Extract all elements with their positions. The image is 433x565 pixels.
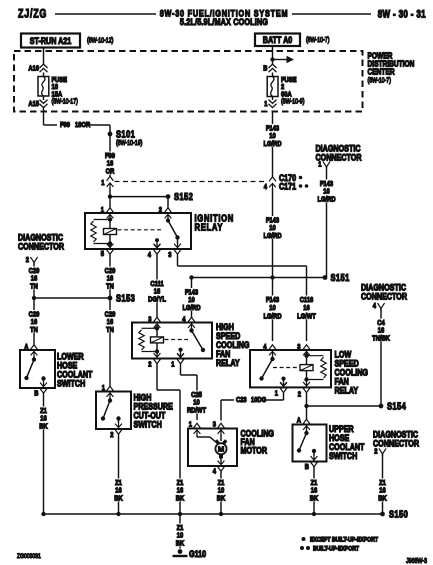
splice S151 xyxy=(323,272,350,283)
low speed relay pin 4 xyxy=(263,343,276,356)
diagnostic connector (left) pin 2 xyxy=(26,256,38,264)
junction at S154 bus xyxy=(304,404,308,408)
legend except built-up-export xyxy=(302,537,379,544)
svg-text:CENTER: CENTER xyxy=(368,67,395,77)
cooling fan motor pin 3 xyxy=(213,421,225,435)
svg-text:(8W-10-19): (8W-10-19) xyxy=(116,139,142,147)
svg-text:(8W-10-12): (8W-10-12) xyxy=(87,37,113,45)
wire F143 to high speed relay pin 4 xyxy=(191,278,193,319)
svg-text:LG/RD: LG/RD xyxy=(263,232,281,240)
cooling fan motor symbol xyxy=(197,435,227,462)
label Z1 16 BK (cutout leg) xyxy=(114,479,123,503)
wire ignition relay pin 5 to S153 xyxy=(109,254,111,298)
svg-text:C171: C171 xyxy=(279,180,296,191)
header title ZJ/ZG xyxy=(18,8,47,20)
label Z1 16 BK (lower hose leg) xyxy=(39,407,48,431)
wire low speed relay pin 2 to S154 bus and upper hose switch xyxy=(306,393,308,419)
label COOLING FAN MOTOR xyxy=(241,427,274,455)
S154 bus wire xyxy=(307,405,382,407)
svg-text:4: 4 xyxy=(263,343,266,351)
ignition relay pin 3 xyxy=(168,243,181,259)
svg-text:10DG: 10DG xyxy=(251,396,266,404)
svg-text:1: 1 xyxy=(101,179,104,187)
svg-text:BK: BK xyxy=(378,495,386,503)
label (8W-10-7) xyxy=(306,36,329,44)
wire connector to junction xyxy=(109,188,111,197)
upper hose coolant switch box xyxy=(293,425,327,462)
header page number 8W - 30 - 31 xyxy=(378,7,426,19)
svg-text:ST-RUN A21: ST-RUN A21 xyxy=(30,35,72,46)
ignition relay box xyxy=(85,213,191,249)
diagnostic connector (top right) pin 1 xyxy=(318,161,330,169)
svg-text:S152: S152 xyxy=(174,191,193,202)
svg-text:SWITCH: SWITCH xyxy=(57,377,85,388)
svg-text:(8W-10-7): (8W-10-7) xyxy=(368,77,391,85)
svg-text:3: 3 xyxy=(148,316,151,324)
svg-text:10: 10 xyxy=(269,305,276,313)
svg-text:18OR: 18OR xyxy=(75,121,90,129)
svg-text:BK: BK xyxy=(310,495,318,503)
wire bus to ground G110 xyxy=(179,514,181,549)
svg-text:4: 4 xyxy=(264,183,267,191)
svg-text:LG/RD: LG/RD xyxy=(317,196,335,204)
F143 bus wire xyxy=(192,277,326,279)
svg-text:TN: TN xyxy=(106,283,114,291)
diagnostic connector (left) xyxy=(18,231,64,251)
wire node down to lower hose coolant switch xyxy=(33,298,35,345)
svg-text:B: B xyxy=(305,463,309,471)
svg-text:ZJ/ZG: ZJ/ZG xyxy=(18,8,47,20)
svg-text:ZG003031: ZG003031 xyxy=(17,553,41,560)
wire ignition relay pin 3 to low speed relay pin 3 xyxy=(178,254,307,341)
high pressure cut-out switch pin 2 xyxy=(110,423,122,439)
splice S150 xyxy=(380,508,408,519)
svg-text:RELAY: RELAY xyxy=(216,357,240,368)
high speed relay pin 3 xyxy=(148,316,160,329)
ignition relay pin 5 xyxy=(101,243,114,258)
wire ignition relay pin 4 to high speed relay pin 3 xyxy=(156,254,158,318)
fuse F2 60A xyxy=(267,77,278,97)
pin A16 xyxy=(28,64,47,73)
legend built-up-export xyxy=(300,546,359,553)
label LOW SPEED COOLING FAN RELAY xyxy=(335,348,368,395)
label FUSE 2 60A (8W-10-9) xyxy=(281,76,304,105)
svg-text:MOTOR: MOTOR xyxy=(241,444,268,455)
label F143 16 LG/RD xyxy=(317,180,337,204)
svg-text:8W - 30 - 31: 8W - 30 - 31 xyxy=(378,7,426,19)
svg-text:2: 2 xyxy=(159,206,162,214)
svg-text:5.2L/5.9L/MAX COOLING: 5.2L/5.9L/MAX COOLING xyxy=(180,16,268,27)
high speed relay pin 1 contact xyxy=(177,348,184,358)
svg-text:1: 1 xyxy=(101,206,104,214)
svg-text:LG/WT: LG/WT xyxy=(297,313,316,321)
high speed relay control dashed line xyxy=(165,339,189,341)
cooling fan motor pin 4 xyxy=(213,460,225,476)
label LOWER HOSE COOLANT SWITCH xyxy=(57,350,93,388)
wire diag pin 2 to S153 node xyxy=(33,263,35,299)
cooling fan motor pin 1 xyxy=(189,421,201,435)
svg-text:M: M xyxy=(218,445,224,454)
upper hose coolant switch contacts xyxy=(297,431,316,457)
footer drawing number ZG003031 xyxy=(17,553,41,560)
svg-text:TN: TN xyxy=(30,326,38,334)
upper hose coolant switch pin B xyxy=(305,456,318,472)
diagnostic connector (bottom right) xyxy=(373,428,419,448)
high speed relay pin 2 xyxy=(148,353,160,369)
wire A16 to fuse 18 xyxy=(43,73,45,77)
label C29 16 TN (lower hose leg) xyxy=(28,310,41,334)
ignition relay switch xyxy=(166,218,180,243)
wire C171 down to F143 bus xyxy=(272,188,274,278)
svg-text:S101: S101 xyxy=(116,128,135,139)
high speed relay pin 1 xyxy=(171,353,184,369)
junction F143 bus mid xyxy=(270,275,274,279)
label Z1 16 BK (upper hose leg) xyxy=(309,479,318,503)
wire diag pin 2 to S150 xyxy=(382,454,384,514)
label HIGH PRESSURE CUT-OUT SWITCH xyxy=(134,391,174,429)
svg-text:BK: BK xyxy=(114,495,122,503)
wire upper hose switch to ground bus xyxy=(313,467,315,514)
low speed relay pin 1 xyxy=(275,381,287,397)
svg-text:LG/RD: LG/RD xyxy=(263,313,281,321)
wire junction down to ignition relay pin 1 xyxy=(109,197,111,208)
svg-text:4: 4 xyxy=(182,316,185,324)
low speed relay coil xyxy=(300,354,326,382)
svg-text:2: 2 xyxy=(110,431,113,439)
in-line connector pin 1 xyxy=(101,176,113,187)
wire F143 to low speed relay pin 4 xyxy=(272,278,274,342)
wire high speed relay pin 1 to fan motor pin 1 xyxy=(181,364,198,420)
splice S101 xyxy=(108,128,143,147)
ignition relay pin 4 xyxy=(148,243,161,259)
svg-text:5: 5 xyxy=(101,250,104,258)
svg-text:TN: TN xyxy=(106,326,114,334)
svg-text:(8W-10-17): (8W-10-17) xyxy=(52,98,78,106)
ground bus junction upper hose xyxy=(312,512,316,516)
splice S154 xyxy=(379,400,407,411)
svg-text:LG/RD: LG/RD xyxy=(263,140,281,148)
label Z1 16 BK (high speed leg) xyxy=(175,479,184,503)
label F143 10 LG/RD (high speed leg) xyxy=(182,288,202,312)
wire S101 down to in-line connector xyxy=(109,134,111,176)
C23 wire to low speed relay pin 1 xyxy=(221,393,284,400)
svg-text:DG/YL: DG/YL xyxy=(148,296,166,304)
svg-text:SWITCH: SWITCH xyxy=(134,418,162,429)
ground bus junction fan motor xyxy=(219,512,223,516)
svg-text:4: 4 xyxy=(373,302,376,310)
svg-text:1: 1 xyxy=(264,100,267,108)
label F99 16 OR xyxy=(104,152,117,176)
ignition relay pin 4 contact xyxy=(154,238,161,248)
svg-text:4: 4 xyxy=(213,468,216,476)
junction at PDC feed xyxy=(270,57,274,61)
ignition relay coil xyxy=(91,217,117,245)
diagnostic connector (top right) xyxy=(316,142,362,162)
label C29 16 TN (cutout leg) xyxy=(104,310,117,334)
svg-text:2: 2 xyxy=(26,256,29,264)
svg-text:2: 2 xyxy=(148,361,151,369)
diagnostic connector (mid right) xyxy=(361,281,407,301)
wire high pressure switch to ground bus xyxy=(118,434,120,514)
svg-text:BATT A0: BATT A0 xyxy=(263,34,293,45)
pin A15 xyxy=(28,96,47,108)
high speed relay pin 4 xyxy=(182,316,195,329)
svg-text:RD/WT: RD/WT xyxy=(187,407,207,415)
svg-text:G110: G110 xyxy=(189,548,206,559)
label UPPER HOSE COOLANT SWITCH xyxy=(329,423,365,461)
svg-text:3: 3 xyxy=(168,251,171,259)
svg-text:BK: BK xyxy=(217,495,225,503)
pin 1 of fuse 2 xyxy=(264,97,276,109)
svg-text:RELAY: RELAY xyxy=(335,384,359,395)
label C116 16 LG/WT xyxy=(297,296,317,321)
upper hose coolant switch pin A xyxy=(297,417,310,431)
ignition relay pin 2 xyxy=(159,206,172,219)
ground bus junction lower hose xyxy=(41,512,45,516)
ignition relay pin 1 xyxy=(101,206,114,219)
junction F143 bus left xyxy=(189,275,193,279)
wire high speed relay pin 2 to ground bus xyxy=(157,364,180,514)
label F143 10 LG/RD (below C171) xyxy=(263,216,283,240)
svg-text:LG/RD: LG/RD xyxy=(182,304,200,312)
low speed relay pin 1 contact xyxy=(280,377,287,387)
dashed connector line C170/C171 xyxy=(115,181,268,183)
svg-text:1: 1 xyxy=(318,161,321,169)
svg-text:S150: S150 xyxy=(389,508,408,519)
svg-text:BK: BK xyxy=(39,423,47,431)
svg-text:F99: F99 xyxy=(60,121,70,129)
svg-text:CONNECTOR: CONNECTOR xyxy=(18,240,64,251)
svg-text:2: 2 xyxy=(374,448,377,456)
wire junction to S152 xyxy=(110,196,168,198)
wire lower hose switch to ground bus xyxy=(43,393,45,514)
label C29 16 TN (relay leg) xyxy=(104,267,117,291)
high speed relay coil xyxy=(139,326,164,354)
header title 8W-30 FUEL/IGNITION SYSTEM xyxy=(160,7,289,27)
svg-text:BUILT-UP-EXPORT: BUILT-UP-EXPORT xyxy=(313,546,359,553)
svg-text:C116: C116 xyxy=(300,296,314,304)
label C4 16 TN/BK xyxy=(371,319,391,343)
wire diag pin 4 to S154 xyxy=(380,309,382,407)
ground bus junction cutout switch xyxy=(116,512,120,516)
svg-text:S151: S151 xyxy=(331,272,350,283)
splice S153 xyxy=(108,292,136,303)
header rule right xyxy=(292,13,371,15)
wire ST-RUN A21 down into PDC xyxy=(43,48,45,65)
svg-text:RELAY: RELAY xyxy=(195,221,224,232)
PDC feed arrow xyxy=(273,56,295,63)
svg-text:BK: BK xyxy=(176,540,184,548)
svg-text:(8W-10-9): (8W-10-9) xyxy=(281,98,304,106)
svg-text:S154: S154 xyxy=(387,400,406,411)
ground G110 xyxy=(173,548,207,559)
label C170 / C171 xyxy=(279,172,308,192)
svg-text:4: 4 xyxy=(148,251,151,259)
high pressure cut-out switch pin 1 xyxy=(102,384,114,397)
wire fan motor to ground bus xyxy=(220,471,222,514)
wire diag pin 1 to S151 xyxy=(325,167,327,278)
svg-text:16: 16 xyxy=(303,305,310,313)
label C25 10 RD/WT xyxy=(187,391,207,415)
svg-text:TN/BK: TN/BK xyxy=(372,335,390,343)
ground bus wire Z1 xyxy=(44,513,383,515)
svg-text:EXCEPT BUILT-UP-EXPORT: EXCEPT BUILT-UP-EXPORT xyxy=(310,537,378,544)
wire BATT A0 down into PDC xyxy=(272,46,274,65)
svg-text:B: B xyxy=(263,65,267,73)
svg-text:A15: A15 xyxy=(28,100,39,108)
low speed relay switch xyxy=(259,356,274,381)
in-line connector C170/C171 pin 4 xyxy=(264,177,276,191)
junction below connector xyxy=(108,194,112,198)
svg-text:TN: TN xyxy=(30,283,38,291)
wire node to S153 xyxy=(34,297,110,299)
label Z1 10 BK (fan motor leg) xyxy=(216,479,225,503)
power distribution center dashed box xyxy=(14,51,363,112)
ignition relay control dashed line xyxy=(118,229,164,231)
svg-text:S153: S153 xyxy=(116,292,135,303)
ground bus junction high speed relay xyxy=(178,512,182,516)
svg-text:F143: F143 xyxy=(266,296,279,304)
label HIGH SPEED COOLING FAN RELAY xyxy=(216,321,249,368)
diagnostic connector (bottom right) pin 2 xyxy=(374,448,386,456)
footer code J968W-3 xyxy=(406,557,427,565)
label C23 10DG xyxy=(234,395,266,405)
label F143 10 LG/RD (low speed leg) xyxy=(263,296,283,321)
low speed relay pin 2 xyxy=(298,381,310,398)
lower hose coolant switch contacts xyxy=(24,356,45,382)
svg-text:2: 2 xyxy=(298,391,301,399)
diagnostic connector (mid right) pin 4 xyxy=(373,302,385,310)
label C29 16 TN (diag leg) xyxy=(28,267,41,291)
svg-text:1: 1 xyxy=(275,390,278,398)
svg-text:3: 3 xyxy=(297,343,300,351)
label Z1 16 BK (diag leg) xyxy=(378,479,387,503)
label F99 18OR xyxy=(57,120,90,130)
wire S153 down to high pressure cut-out switch xyxy=(109,298,111,386)
svg-text:OR: OR xyxy=(106,168,115,176)
label POWER DISTRIBUTION CENTER xyxy=(368,51,415,85)
connector ST-RUN A21 xyxy=(21,34,80,48)
lower hose coolant switch box xyxy=(20,350,55,388)
wire pin B to fuse 2 xyxy=(272,73,274,77)
wire fuse 2 down to connector C170/C171 xyxy=(272,112,274,177)
node at diag leg xyxy=(32,296,36,300)
svg-text:1: 1 xyxy=(171,361,174,369)
svg-text:CONNECTOR: CONNECTOR xyxy=(373,437,419,448)
fuse F18 15A xyxy=(38,77,49,97)
splice S152 xyxy=(166,191,194,202)
svg-text:CONNECTOR: CONNECTOR xyxy=(361,290,407,301)
svg-text:BK: BK xyxy=(176,495,184,503)
lower hose coolant switch pin B xyxy=(34,382,47,398)
wire S152 down to ignition relay pin 2 xyxy=(167,197,169,208)
connector BATT A0 xyxy=(255,34,300,47)
high speed cooling fan relay box xyxy=(132,323,212,359)
pin B of fuse 2 xyxy=(263,64,276,73)
label F143 10 LG/RD (above C170) xyxy=(263,124,283,148)
label C111 16 DG/YL xyxy=(147,280,167,304)
svg-text:B: B xyxy=(34,390,38,398)
high pressure cut-out switch box xyxy=(96,392,131,430)
label IGNITION RELAY xyxy=(195,212,234,232)
label (8W-10-12) xyxy=(87,37,113,45)
label Z1 10 BK (ground leg) xyxy=(175,524,184,548)
label FUSE 18 15A (8W-10-17) xyxy=(52,76,78,105)
svg-text:J968W-3: J968W-3 xyxy=(406,557,427,565)
high pressure cut-out switch contacts xyxy=(101,398,121,424)
svg-text:(8W-10-7): (8W-10-7) xyxy=(306,36,329,44)
wire fan motor pin 3 to C23 line xyxy=(220,400,222,421)
lower hose coolant switch pin A xyxy=(24,343,37,356)
low speed relay pin 3 xyxy=(297,343,310,356)
cooling fan motor box xyxy=(188,429,237,467)
high speed relay switch xyxy=(189,328,205,352)
svg-text:SWITCH: SWITCH xyxy=(329,450,357,461)
svg-text:A16: A16 xyxy=(28,65,39,73)
wire fuse 18 out of PDC to S101 xyxy=(44,107,111,134)
header rule left xyxy=(55,13,156,15)
svg-text:C23: C23 xyxy=(236,396,247,404)
low speed cooling fan relay box xyxy=(250,350,331,387)
low speed relay control dashed line xyxy=(273,367,299,369)
svg-text:CONNECTOR: CONNECTOR xyxy=(316,151,362,162)
